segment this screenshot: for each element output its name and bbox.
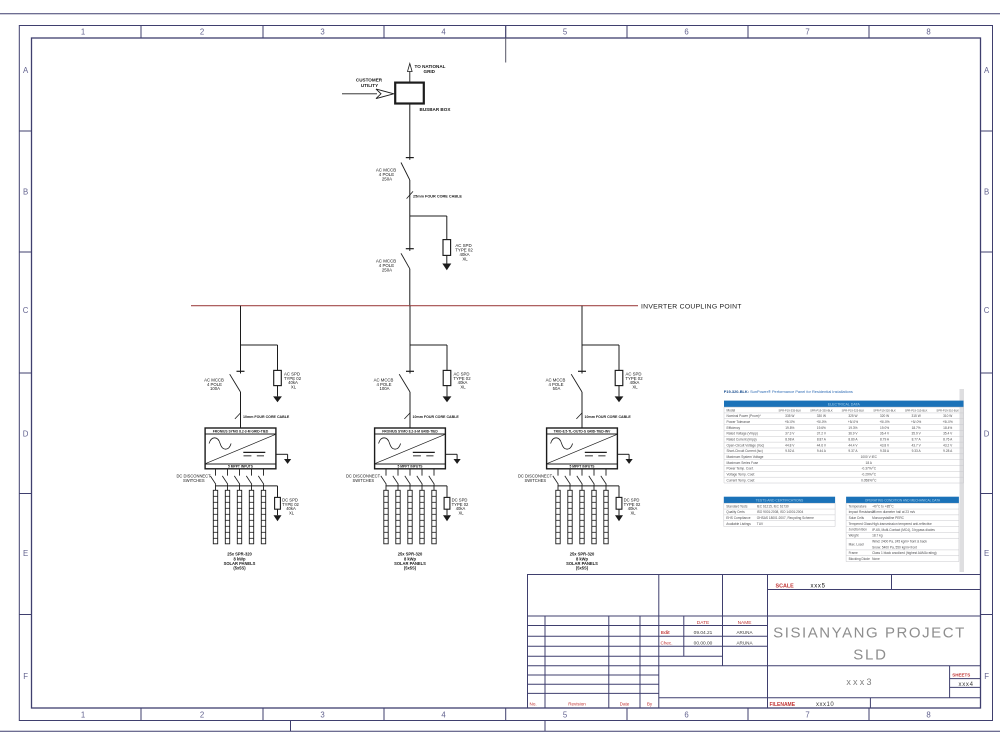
svg-text:Efficiency: Efficiency <box>727 426 741 430</box>
cable marker branch 2 <box>404 413 459 420</box>
label SPD1 value <box>455 243 473 262</box>
ground inverter U2 <box>445 454 460 464</box>
svg-text:315 W: 315 W <box>912 414 921 418</box>
svg-text:C: C <box>23 306 29 315</box>
svg-text:FRONIUS SYMO 8.2-3-M GRID-TIED: FRONIUS SYMO 8.2-3-M GRID-TIED <box>213 430 269 434</box>
surge protector DC SPD branch 2 <box>443 497 451 521</box>
svg-text:+5/-0%: +5/-0% <box>848 420 858 424</box>
svg-text:SPR-P19-320-BLK: SPR-P19-320-BLK <box>873 408 896 412</box>
svg-text:TUV: TUV <box>757 522 764 526</box>
svg-text:xxx10: xxx10 <box>816 702 834 708</box>
svg-text:SPR-P19-325-BLK: SPR-P19-325-BLK <box>842 408 865 412</box>
svg-text:SLD: SLD <box>853 646 888 663</box>
svg-text:INVERTER COUPLING POINT: INVERTER COUPLING POINT <box>641 303 742 310</box>
svg-text:SWITCHES: SWITCHES <box>524 478 546 483</box>
operating condition and mechanical data table <box>846 497 959 562</box>
label INVERTER COUPLING POINT <box>641 303 742 310</box>
dc disconnect switch U1.1 <box>210 476 216 485</box>
wire inverter U2 input 5 <box>433 469 435 476</box>
wire CB2 to coupling bus <box>409 269 411 306</box>
surge protector SPD1 AC SPD TYPE 02 <box>442 240 451 271</box>
svg-text:xxx3: xxx3 <box>846 677 873 687</box>
svg-text:DATE: DATE <box>697 620 709 626</box>
svg-text:D: D <box>984 430 990 439</box>
svg-text:Wind: 2400 Pa, 245 kg/m² front: Wind: 2400 Pa, 245 kg/m² front & back <box>872 539 927 543</box>
svg-text:Rated Voltage (Vmpp): Rated Voltage (Vmpp) <box>727 432 758 436</box>
wire coupling bus to branch 1 node <box>240 306 242 345</box>
dc disconnect switch U1.2 <box>222 476 228 485</box>
label AC SPD branch 2 value <box>453 371 471 389</box>
svg-text:1: 1 <box>81 27 85 36</box>
wire switch to string 1.2 <box>227 484 229 490</box>
svg-text:Quality Certs: Quality Certs <box>726 510 745 514</box>
wire breaker to inverter 3 <box>581 392 583 428</box>
wire coupling bus to branch 2 node <box>409 306 411 345</box>
svg-text:44.6 V: 44.6 V <box>817 443 827 447</box>
svg-text:36.9 V: 36.9 V <box>848 432 858 436</box>
dc disconnect switch U3.3 <box>577 476 583 485</box>
svg-text:9.35 A: 9.35 A <box>880 449 890 453</box>
svg-text:XL: XL <box>630 511 636 516</box>
svg-text:-0.29%/°C: -0.29%/°C <box>861 473 876 477</box>
svg-text:8.76 A: 8.76 A <box>943 438 953 442</box>
svg-text:SPR-P19-315-BLK: SPR-P19-315-BLK <box>905 408 928 412</box>
svg-text:XL: XL <box>460 385 466 390</box>
label CB1 value <box>376 168 396 182</box>
svg-text:10mm FOUR CORE CABLE: 10mm FOUR CORE CABLE <box>413 415 460 419</box>
svg-text:Rated Current (Impp): Rated Current (Impp) <box>727 438 757 442</box>
svg-text:00.00.00: 00.00.00 <box>694 640 713 646</box>
svg-text:(5x5S): (5x5S) <box>233 566 246 571</box>
node branch 2 SPD tap <box>410 345 447 370</box>
svg-text:XL: XL <box>632 385 638 390</box>
svg-text:7: 7 <box>805 27 809 36</box>
wire switch to string 2.1 <box>385 484 387 490</box>
svg-text:+5/-0%: +5/-0% <box>879 420 889 424</box>
pv string 3.2 <box>568 490 572 544</box>
svg-text:B: B <box>984 188 989 197</box>
svg-text:ARUNA: ARUNA <box>736 630 753 635</box>
svg-text:Revision: Revision <box>568 702 586 707</box>
svg-text:Weight: Weight <box>849 534 859 538</box>
wire inverter U3 input 5 <box>605 469 607 476</box>
svg-text:SPR-P19-335-BLK: SPR-P19-335-BLK <box>779 408 802 412</box>
svg-text:FRONIUS SYMO 8.2-3-M GRID-TIED: FRONIUS SYMO 8.2-3-M GRID-TIED <box>382 430 438 434</box>
wire inverter U3 input 1 <box>557 469 559 476</box>
wire switch to string 3.4 <box>593 484 595 490</box>
svg-text:8: 8 <box>926 710 930 719</box>
svg-text:44.8 V: 44.8 V <box>785 443 795 447</box>
svg-text:TESTS AND CERTIFICATIONS: TESTS AND CERTIFICATIONS <box>756 499 804 503</box>
svg-text:SHEETS: SHEETS <box>952 673 970 678</box>
svg-text:7: 7 <box>805 710 809 719</box>
label breaker branch 1 value <box>204 377 224 391</box>
svg-text:OPERATING CONDITION AND MECHAN: OPERATING CONDITION AND MECHANICAL DATA <box>865 498 941 502</box>
svg-text:IP-65, Multi-Contact (MC4), 3: IP-65, Multi-Contact (MC4), 3 bypass dio… <box>872 528 935 532</box>
svg-text:Maximum System Voltage: Maximum System Voltage <box>727 455 764 459</box>
pv string 1.5 <box>261 490 265 544</box>
dc disconnect switch U3.4 <box>589 476 595 485</box>
wire inverter U3 input 4 <box>593 469 595 476</box>
PV module datasheet panel <box>724 389 964 572</box>
pv string 3.4 <box>592 490 596 544</box>
label AC SPD branch 3 value <box>625 371 643 389</box>
surge protector AC SPD branch 1 <box>273 370 282 402</box>
pv string 1.2 <box>225 490 229 544</box>
svg-text:Impact Resistance: Impact Resistance <box>849 510 875 514</box>
svg-text:9.44 A: 9.44 A <box>817 449 827 453</box>
pv string 2.1 <box>384 490 388 544</box>
svg-text:37.3 V: 37.3 V <box>785 432 795 436</box>
svg-text:FILENAME: FILENAME <box>770 702 796 708</box>
wire switch to string 2.4 <box>421 484 423 490</box>
svg-text:ELECTRICAL DATA: ELECTRICAL DATA <box>828 402 861 406</box>
svg-text:xxx5: xxx5 <box>811 584 826 590</box>
svg-text:25 mm diameter hail at 23 m/s: 25 mm diameter hail at 23 m/s <box>872 510 915 514</box>
svg-text:EHS Compliance: EHS Compliance <box>726 516 750 520</box>
wire switch to string 2.3 <box>409 484 411 490</box>
svg-text:SWITCHES: SWITCHES <box>183 478 205 483</box>
dc disconnect switch U2.5 <box>429 476 435 485</box>
wire inverter U1 input 2 <box>227 469 229 476</box>
wire node N1 to SPD1 <box>446 216 448 240</box>
pv string 2.2 <box>396 490 400 544</box>
wire inverter U2 input 1 <box>385 469 387 476</box>
svg-text:6: 6 <box>684 710 688 719</box>
label DC DISCONNECT SWITCHES branch 3 <box>518 473 553 483</box>
breaker AC MCCB branch 3 <box>571 371 586 392</box>
svg-text:36.4 V: 36.4 V <box>880 432 890 436</box>
svg-text:Maximum Series Fuse: Maximum Series Fuse <box>727 461 759 465</box>
svg-text:19.0%: 19.0% <box>880 426 889 430</box>
svg-text:1000 V IEC: 1000 V IEC <box>861 455 878 459</box>
svg-text:By: By <box>647 702 653 707</box>
wire string collector branch 1 <box>216 486 278 498</box>
wire coupling bus to branch 3 node <box>581 306 583 345</box>
svg-text:None: None <box>872 557 880 561</box>
wire string collector branch 3 <box>558 486 619 498</box>
wire inverter U3 input 2 <box>569 469 571 476</box>
pv string 1.1 <box>213 490 217 544</box>
node N1 (SPD tap) <box>410 215 447 217</box>
svg-text:SPR-P19-310-BLK: SPR-P19-310-BLK <box>936 408 959 412</box>
svg-text:IEC 61215, IEC 61730: IEC 61215, IEC 61730 <box>757 504 789 508</box>
svg-text:No.: No. <box>530 702 537 707</box>
svg-text:44.4 V: 44.4 V <box>848 443 858 447</box>
svg-text:XL: XL <box>289 511 295 516</box>
dc disconnect switch U2.2 <box>393 476 399 485</box>
svg-text:2: 2 <box>200 27 204 36</box>
svg-text:Model: Model <box>727 408 736 412</box>
svg-text:E: E <box>23 549 28 558</box>
svg-text:Edit: Edit <box>661 630 670 635</box>
wire inverter U2 input 3 <box>409 469 411 476</box>
svg-text:19.6%: 19.6% <box>817 426 826 430</box>
svg-text:18.7 kg: 18.7 kg <box>872 534 883 538</box>
label pv array branch 1 <box>224 552 256 571</box>
wire node to breaker branch 3 <box>581 345 583 374</box>
ground inverter U3 <box>617 454 632 464</box>
svg-text:1: 1 <box>81 710 85 719</box>
svg-text:35.4 V: 35.4 V <box>943 432 953 436</box>
label pv array branch 2 <box>394 552 426 571</box>
wire node to breaker branch 2 <box>409 345 411 374</box>
svg-text:09.04.21: 09.04.21 <box>694 630 713 636</box>
svg-text:Frame: Frame <box>849 551 858 555</box>
breaker CB2 AC MCCB 4 POLE 250A <box>401 249 414 269</box>
svg-text:Available Listings: Available Listings <box>726 522 751 526</box>
pv string 3.3 <box>580 490 584 544</box>
wire switch to string 1.5 <box>263 484 265 490</box>
svg-text:18.4%: 18.4% <box>943 426 952 430</box>
svg-text:F: F <box>23 672 28 681</box>
dc disconnect switch U2.4 <box>417 476 423 485</box>
cable marker branch 3 <box>576 413 631 420</box>
svg-text:Class 1 black anodized (highes: Class 1 black anodized (highest AAMA rat… <box>872 551 937 555</box>
svg-text:OHSAS 18001:2007, Recycling Sc: OHSAS 18001:2007, Recycling Scheme <box>757 516 814 520</box>
wire inverter U2 input 4 <box>421 469 423 476</box>
svg-text:2: 2 <box>200 710 204 719</box>
svg-text:SPR-P19-330-BLK: SPR-P19-330-BLK <box>810 408 833 412</box>
svg-text:37.2 V: 37.2 V <box>817 432 827 436</box>
label DC SPD branch 1 value <box>282 498 299 516</box>
svg-text:18 A: 18 A <box>866 461 873 465</box>
svg-text:XL: XL <box>458 511 464 516</box>
svg-text:35.9 V: 35.9 V <box>912 432 922 436</box>
label DC SPD branch 3 value <box>624 498 641 516</box>
svg-text:43.8 V: 43.8 V <box>880 443 890 447</box>
bus INVERTER COUPLING POINT <box>191 305 638 307</box>
svg-text:Open-Circuit Voltage (Voc): Open-Circuit Voltage (Voc) <box>727 443 765 447</box>
wire node N1 to breaker CB2 <box>409 216 411 251</box>
label DC SPD branch 2 value <box>452 498 469 516</box>
svg-text:Tempered Glass: Tempered Glass <box>849 522 873 526</box>
svg-text:C: C <box>984 306 990 315</box>
svg-text:SCALE: SCALE <box>776 583 795 589</box>
dc disconnect switch U3.1 <box>553 476 559 485</box>
label AC SPD branch 1 value <box>284 371 302 389</box>
svg-text:Junction Box: Junction Box <box>849 528 868 532</box>
svg-text:Voltage Temp. Coef.: Voltage Temp. Coef. <box>727 473 756 477</box>
wire switch to string 3.5 <box>605 484 607 490</box>
svg-text:Blocking Diode: Blocking Diode <box>849 557 870 561</box>
wire inverter U1 input 1 <box>215 469 217 476</box>
svg-text:Temperature: Temperature <box>849 504 867 508</box>
wire inverter U1 input 3 <box>239 469 241 476</box>
pv string 3.1 <box>556 490 560 544</box>
svg-text:3: 3 <box>320 710 324 719</box>
label DC DISCONNECT SWITCHES branch 2 <box>346 473 381 483</box>
svg-text:5 MPPT INPUTS: 5 MPPT INPUTS <box>398 465 424 469</box>
wire switch to string 3.3 <box>581 484 583 490</box>
title block <box>528 575 981 709</box>
svg-text:5: 5 <box>563 27 568 36</box>
tests and certifications table <box>724 497 835 527</box>
svg-text:+5/-0%: +5/-0% <box>816 420 826 424</box>
svg-text:XL: XL <box>462 257 468 262</box>
svg-text:8.98 A: 8.98 A <box>785 438 795 442</box>
pv string 2.5 <box>432 490 436 544</box>
svg-text:Short-Circuit Current (Isc): Short-Circuit Current (Isc) <box>727 449 763 453</box>
svg-text:(5x5S): (5x5S) <box>576 566 589 571</box>
svg-text:50A: 50A <box>553 386 561 391</box>
wire inverter U3 input 3 <box>581 469 583 476</box>
svg-text:100A: 100A <box>210 386 220 391</box>
svg-text:Date: Date <box>620 702 630 707</box>
breaker AC MCCB branch 2 <box>399 371 414 392</box>
svg-text:4: 4 <box>441 710 446 719</box>
label pv array branch 3 <box>566 552 598 571</box>
svg-text:-40°C to +85°C: -40°C to +85°C <box>872 504 894 508</box>
svg-text:250A: 250A <box>382 268 392 273</box>
svg-text:+5/-0%: +5/-0% <box>785 420 795 424</box>
inverter U2 FRONIUS SYMO 8.2-3-M GRID-TIED <box>375 428 446 469</box>
svg-text:Chec.: Chec. <box>661 640 673 645</box>
svg-text:Current Temp. Coef.: Current Temp. Coef. <box>727 478 756 482</box>
svg-text:18.7%: 18.7% <box>912 426 921 430</box>
svg-text:8.80 A: 8.80 A <box>848 438 858 442</box>
svg-text:D: D <box>23 430 29 439</box>
label TO NATIONAL GRID <box>415 64 446 74</box>
label CB2 value <box>376 259 396 273</box>
svg-text:ARUNA: ARUNA <box>736 640 753 645</box>
wire switch to string 3.2 <box>569 484 571 490</box>
svg-text:BUSBAR BOX: BUSBAR BOX <box>420 107 452 112</box>
svg-text:9.52 A: 9.52 A <box>785 449 795 453</box>
label breaker branch 3 value <box>546 377 566 391</box>
svg-text:Power Temp. Coef.: Power Temp. Coef. <box>727 467 754 471</box>
svg-text:9.28 A: 9.28 A <box>943 449 953 453</box>
svg-text:5 MPPT INPUTS: 5 MPPT INPUTS <box>228 465 254 469</box>
svg-text:+5/-0%: +5/-0% <box>911 420 921 424</box>
svg-text:19.3%: 19.3% <box>848 426 857 430</box>
svg-text:5 MPPT INPUTS: 5 MPPT INPUTS <box>570 465 596 469</box>
svg-text:100A: 100A <box>379 386 389 391</box>
svg-text:ISO 9001:2008, ISO 14001:2004: ISO 9001:2008, ISO 14001:2004 <box>757 510 804 514</box>
svg-text:Max. Load: Max. Load <box>849 542 864 546</box>
svg-text:E: E <box>984 549 989 558</box>
svg-text:10mm FOUR CORE CABLE: 10mm FOUR CORE CABLE <box>585 415 632 419</box>
svg-text:Power Tolerance: Power Tolerance <box>727 420 751 424</box>
svg-text:43.2 V: 43.2 V <box>943 443 953 447</box>
wire switch to string 2.2 <box>397 484 399 490</box>
svg-text:8.77 A: 8.77 A <box>912 438 922 442</box>
svg-text:320 W: 320 W <box>880 414 889 418</box>
svg-text:Standard Tests: Standard Tests <box>726 504 748 508</box>
pv string 3.5 <box>604 490 608 544</box>
svg-text:10mm FOUR CORE CABLE: 10mm FOUR CORE CABLE <box>243 415 290 419</box>
svg-text:19.8%: 19.8% <box>785 426 794 430</box>
wire inverter U2 input 2 <box>397 469 399 476</box>
svg-text:A: A <box>984 66 990 75</box>
breaker CB1 AC MCCB 4 POLE 250A <box>401 158 414 180</box>
wire switch to string 3.1 <box>557 484 559 490</box>
svg-text:xxx4: xxx4 <box>959 682 974 688</box>
node branch 1 SPD tap <box>241 345 278 370</box>
wire string collector branch 2 <box>386 486 447 498</box>
svg-text:6: 6 <box>684 27 688 36</box>
svg-text:250A: 250A <box>382 177 392 182</box>
svg-text:NAME: NAME <box>738 620 752 626</box>
svg-text:Snow: 5400 Pa, 550 kg/m² front: Snow: 5400 Pa, 550 kg/m² front <box>872 545 917 549</box>
svg-text:0.058%/°C: 0.058%/°C <box>861 478 877 482</box>
dc disconnect switch U2.3 <box>405 476 411 485</box>
svg-text:25mm FOUR CORE CABLE: 25mm FOUR CORE CABLE <box>413 194 462 198</box>
svg-text:High-transmission tempered ant: High-transmission tempered anti-reflecti… <box>872 522 932 526</box>
pv string 2.3 <box>408 490 412 544</box>
node branch 3 SPD tap <box>582 345 619 370</box>
svg-text:330 W: 330 W <box>817 414 826 418</box>
wire switch to string 1.1 <box>215 484 217 490</box>
title block texts <box>530 583 974 708</box>
surge protector DC SPD branch 3 <box>615 497 623 521</box>
svg-text:(5x5S): (5x5S) <box>404 566 417 571</box>
svg-text:Solar Cells: Solar Cells <box>849 516 865 520</box>
ground inverter U1 <box>276 454 291 464</box>
inverter U3 TRIO-8.5-TL-OUTD-S GRID-TIED-INV <box>547 428 618 469</box>
svg-text:325 W: 325 W <box>848 414 857 418</box>
svg-text:SISIANYANG PROJECT: SISIANYANG PROJECT <box>773 624 966 641</box>
svg-text:335 W: 335 W <box>785 414 794 418</box>
svg-text:SWITCHES: SWITCHES <box>352 478 374 483</box>
svg-text:Nominal Power (Pnom)*: Nominal Power (Pnom)* <box>727 414 762 418</box>
wire busbar box to breaker CB1 <box>409 104 411 160</box>
svg-text:A: A <box>23 66 29 75</box>
svg-text:GRID: GRID <box>424 69 436 74</box>
dc disconnect switch U3.2 <box>565 476 571 485</box>
dc disconnect switch U3.5 <box>601 476 607 485</box>
label DC DISCONNECT SWITCHES branch 1 <box>176 473 211 483</box>
svg-text:310 W: 310 W <box>943 414 952 418</box>
utility feed arrow (CUSTOMER UTILITY input) <box>342 89 394 99</box>
wire inverter U1 input 5 <box>263 469 265 476</box>
electrical data table <box>724 401 964 483</box>
svg-text:9.37 A: 9.37 A <box>848 449 858 453</box>
label CUSTOMER UTILITY <box>356 78 383 88</box>
dc disconnect switch U2.1 <box>381 476 387 485</box>
wire switch to string 1.4 <box>251 484 253 490</box>
surge protector DC SPD branch 1 <box>274 497 282 521</box>
inverter U1 FRONIUS SYMO 8.2-3-M GRID-TIED <box>205 428 276 469</box>
dc disconnect switch U1.3 <box>234 476 240 485</box>
svg-text:3: 3 <box>320 27 324 36</box>
svg-text:9.33 A: 9.33 A <box>912 449 922 453</box>
svg-text:43.7 V: 43.7 V <box>912 443 922 447</box>
pv string 2.4 <box>420 490 424 544</box>
surge protector AC SPD branch 2 <box>443 370 452 402</box>
svg-text:8.79 A: 8.79 A <box>880 438 890 442</box>
svg-text:4: 4 <box>441 27 446 36</box>
svg-text:Monocrystalline PERC: Monocrystalline PERC <box>872 516 905 520</box>
pv string 1.4 <box>249 490 253 544</box>
dc disconnect switch U1.4 <box>246 476 252 485</box>
svg-text:+5/-0%: +5/-0% <box>943 420 953 424</box>
svg-text:8: 8 <box>926 27 930 36</box>
svg-text:5: 5 <box>563 710 568 719</box>
cable marker branch 1 <box>235 413 290 420</box>
cable marker 25mm four core cable <box>407 191 463 198</box>
wire switch to string 1.3 <box>239 484 241 490</box>
dc disconnect switch U1.5 <box>258 476 264 485</box>
label breaker branch 2 value <box>374 377 394 391</box>
svg-text:P19-320-BLK: SunPower® Perform: P19-320-BLK: SunPower® Performance Panel… <box>724 389 853 394</box>
svg-text:TRIO-8.5-TL-OUTD-S GRID-TIED-I: TRIO-8.5-TL-OUTD-S GRID-TIED-INV <box>554 430 612 434</box>
svg-text:-0.37%/°C: -0.37%/°C <box>861 467 876 471</box>
surge protector AC SPD branch 3 <box>615 370 624 402</box>
wire breaker to inverter 1 <box>240 392 242 428</box>
svg-text:UTILITY: UTILITY <box>361 83 378 88</box>
wire switch to string 2.5 <box>433 484 435 490</box>
